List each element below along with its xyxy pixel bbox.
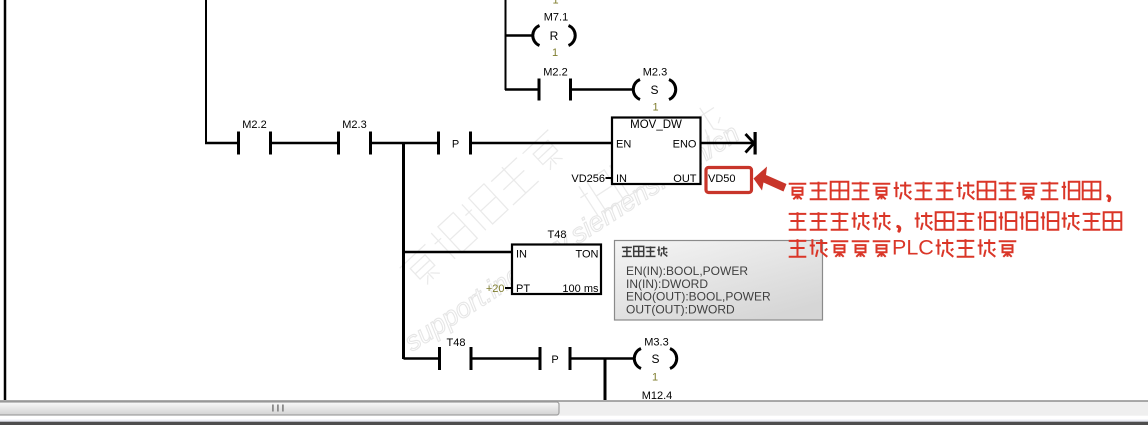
svg-text:OUT: OUT: [673, 173, 697, 185]
junction branch down (bottom): [604, 359, 607, 401]
box timer T48 TON: [512, 245, 601, 295]
svg-text:M2.2: M2.2: [543, 67, 567, 79]
svg-text:MOV_DW: MOV_DW: [630, 119, 682, 131]
wire M2.2 to M2.3: [272, 142, 337, 145]
annotation line 3: [789, 236, 1017, 260]
svg-text:P: P: [452, 139, 459, 151]
wire +20 to PT: [505, 287, 512, 289]
svg-text:M3.3: M3.3: [644, 337, 668, 349]
svg-text:1: 1: [652, 372, 658, 384]
svg-text:+20: +20: [486, 283, 505, 295]
svg-text:100 ms: 100 ms: [562, 283, 599, 295]
svg-text:1: 1: [552, 47, 558, 59]
contact M2.3: [337, 132, 340, 155]
svg-text:M2.3: M2.3: [342, 119, 366, 131]
svg-text:M2.3: M2.3: [643, 67, 667, 79]
svg-text:PT: PT: [516, 283, 530, 295]
svg-text:PLC: PLC: [892, 236, 934, 260]
wire rail to M2.2: [205, 142, 237, 145]
dark window edge bar: [0, 422, 1148, 425]
contact T48: [438, 347, 441, 370]
coil R M7.1: [533, 26, 575, 46]
wire to contact M2.2 (top): [505, 88, 538, 91]
svg-text:EN: EN: [616, 139, 631, 151]
junction branch down: [402, 143, 405, 359]
svg-text:ENO: ENO: [673, 139, 697, 151]
svg-text:M12.4: M12.4: [642, 390, 673, 402]
box MOV_DW: [612, 118, 701, 185]
wire M2.3 to P: [372, 142, 437, 145]
wire M2.2 to S coil: [572, 88, 634, 91]
wire VD256 to IN: [606, 177, 613, 179]
status strip band: [0, 416, 1148, 419]
wire T48 to P: [473, 357, 539, 360]
svg-text:1: 1: [552, 0, 558, 7]
svg-text:VD256: VD256: [571, 173, 605, 185]
contact P (positive edge): [437, 132, 440, 155]
watermark siemens forum: [397, 101, 745, 357]
svg-text:M2.2: M2.2: [242, 119, 266, 131]
highlight box around VD50: [706, 168, 752, 193]
wire branch to T48 contact: [404, 357, 439, 360]
svg-text:R: R: [550, 29, 559, 43]
tooltip box 移动双字: [615, 241, 823, 321]
svg-text:VD50: VD50: [708, 173, 736, 185]
contact M2.2 (top): [538, 79, 541, 101]
scrollbar thumb grip: [272, 405, 274, 412]
svg-text:T48: T48: [447, 337, 466, 349]
svg-text:1: 1: [652, 102, 658, 114]
svg-text:TON: TON: [575, 249, 598, 261]
arrow rung continuation: [746, 134, 755, 153]
wire network-2 left rail: [205, 0, 207, 144]
svg-text:M7.1: M7.1: [544, 12, 568, 24]
svg-text:IN: IN: [616, 173, 627, 185]
tooltip title 移动双字: [622, 246, 667, 256]
wire ENO out: [701, 142, 752, 145]
wire left power rail: [4, 0, 7, 400]
svg-text:OUT(OUT):DWORD: OUT(OUT):DWORD: [626, 302, 735, 316]
wire P to S coil: [572, 357, 635, 360]
annotation line 2: [789, 212, 1122, 231]
contact P (bottom): [539, 347, 542, 370]
svg-text:S: S: [651, 352, 659, 366]
scrollbar track: [0, 401, 1148, 416]
contact M2.2: [237, 132, 240, 155]
red callout arrow: [754, 167, 787, 192]
scrollbar thumb: [0, 402, 559, 415]
coil S M2.3: [633, 80, 675, 100]
svg-text:IN: IN: [516, 249, 527, 261]
coil S M3.3: [634, 349, 676, 369]
wire branch to timer IN: [404, 251, 513, 254]
annotation line 1: [789, 182, 1110, 201]
svg-text:T48: T48: [548, 229, 567, 241]
wire P to MOV_DW EN: [472, 142, 611, 145]
svg-text:P: P: [551, 354, 558, 366]
wire network-1 left rail: [505, 0, 507, 90]
wire to R coil: [505, 34, 533, 37]
svg-text:S: S: [650, 83, 658, 97]
